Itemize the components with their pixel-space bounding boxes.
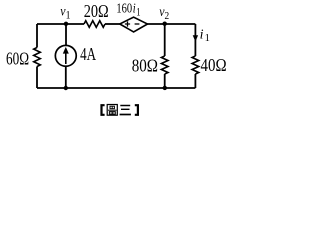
wire left branch upper bbox=[36, 24, 38, 48]
node v2 junction dot bbox=[163, 22, 167, 26]
caption right lenticular bracket bbox=[135, 104, 139, 116]
caption glyph san (three) top bar bbox=[120, 105, 130, 107]
label v2 bbox=[159, 3, 169, 22]
resistor R 80ohm zigzag bbox=[161, 56, 168, 74]
svg-text:40Ω: 40Ω bbox=[201, 55, 227, 76]
minus sign inside diamond bbox=[135, 23, 140, 25]
wire right branch lower bbox=[194, 74, 196, 88]
wire current source branch upper bbox=[65, 24, 67, 46]
caption glyph tu inner top box bbox=[110, 106, 114, 109]
current source 4A circle bbox=[55, 45, 76, 66]
svg-text:20Ω: 20Ω bbox=[84, 1, 109, 21]
svg-text:v2: v2 bbox=[159, 3, 169, 22]
wire dep source to top-right corner bbox=[148, 23, 196, 25]
node v1 junction dot bbox=[64, 22, 68, 26]
label 40 ohm bbox=[201, 55, 227, 76]
label v1 bbox=[60, 2, 70, 21]
svg-text:v1: v1 bbox=[60, 2, 70, 21]
caption glyph tu inner top box mark bbox=[111, 106, 113, 109]
plus sign inside diamond bbox=[125, 21, 130, 26]
label 60 ohm bbox=[6, 50, 29, 69]
label 160i1 bbox=[116, 0, 140, 19]
svg-text:4A: 4A bbox=[80, 45, 97, 64]
current source arrow shaft bbox=[65, 52, 67, 65]
resistor R 40ohm zigzag bbox=[192, 56, 199, 74]
svg-text:80Ω: 80Ω bbox=[132, 55, 158, 76]
svg-text:160i1: 160i1 bbox=[116, 0, 140, 19]
wire right branch upper bbox=[194, 24, 196, 56]
wire current source branch lower bbox=[65, 66, 67, 88]
wire top-left segment bbox=[37, 23, 84, 25]
resistor R1 20ohm zigzag bbox=[84, 21, 105, 28]
label i1 bbox=[200, 27, 210, 44]
caption glyph tu middle line bbox=[108, 109, 117, 111]
wire resistor to dep source bbox=[105, 23, 120, 25]
caption glyph tu (figure) outer box bbox=[107, 105, 117, 116]
caption glyph tu inner bottom box bbox=[109, 112, 115, 115]
resistor R 60ohm zigzag bbox=[34, 48, 41, 67]
caption left lenticular bracket bbox=[100, 104, 104, 116]
wire 80ohm branch upper bbox=[164, 24, 166, 56]
caption glyph san (three) middle bar bbox=[121, 108, 130, 110]
current source arrow head bbox=[63, 47, 69, 54]
wire 80ohm branch lower bbox=[164, 74, 166, 88]
bottom junction dot 80ohm branch bbox=[163, 86, 167, 90]
label 4A bbox=[80, 45, 97, 64]
svg-text:60Ω: 60Ω bbox=[6, 50, 29, 69]
dependent source 160i1 diamond bbox=[120, 17, 148, 32]
caption glyph tu inner bottom cross bbox=[110, 112, 114, 115]
label 20 ohm bbox=[84, 1, 109, 21]
arrow i1 head bbox=[193, 35, 198, 41]
wire left branch lower bbox=[36, 67, 38, 89]
svg-text:i1: i1 bbox=[200, 27, 210, 44]
label 80 ohm bbox=[132, 55, 158, 76]
caption glyph san (three) bottom bar bbox=[120, 114, 131, 116]
wire bottom bbox=[37, 87, 195, 89]
bottom junction dot current source branch bbox=[64, 86, 68, 90]
